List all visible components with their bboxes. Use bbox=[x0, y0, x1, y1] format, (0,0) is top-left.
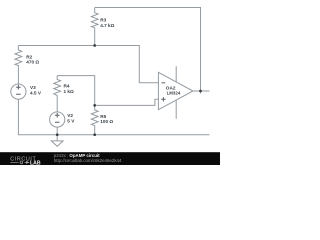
node: R3 bottom junction bbox=[93, 44, 96, 47]
voltage source V3 bbox=[11, 84, 42, 99]
voltage source V2 bbox=[50, 112, 76, 127]
resistor R2 bbox=[15, 46, 39, 85]
wire: noninverting input wire bbox=[95, 99, 159, 105]
svg-text:100 Ω: 100 Ω bbox=[100, 119, 113, 124]
ground bbox=[51, 135, 63, 147]
svg-text:http://circuitlab.com/c6k2e46e: http://circuitlab.com/c6k2e46e2k44 bbox=[54, 158, 122, 163]
wire: R4 top to noninverting node bbox=[57, 76, 94, 106]
op-amp OA2 LM324 bbox=[158, 66, 193, 118]
wire: mid wire to inverting input bbox=[18, 46, 158, 83]
wire: V2 bottom lead bbox=[56, 127, 58, 135]
watermark bar bbox=[0, 152, 220, 165]
wire: bottom rail from V3 to right stub bbox=[18, 99, 209, 135]
svg-text:LM324: LM324 bbox=[167, 90, 181, 95]
svg-text:V3: V3 bbox=[30, 85, 36, 90]
CircuitLab logo bbox=[10, 156, 41, 166]
node: output junction bbox=[199, 90, 202, 93]
svg-text:R4: R4 bbox=[64, 84, 70, 89]
svg-text:4.7 kΩ: 4.7 kΩ bbox=[100, 23, 114, 28]
resistor R3 bbox=[91, 8, 114, 46]
node: R5 bottom junction bbox=[93, 133, 96, 136]
svg-text:5 V: 5 V bbox=[67, 118, 75, 123]
resistor R5 bbox=[91, 105, 113, 134]
wire: top feedback wire from R3 top to output node bbox=[95, 8, 201, 92]
svg-text:V2: V2 bbox=[67, 113, 73, 118]
svg-text:R5: R5 bbox=[100, 114, 106, 119]
svg-text:470 Ω: 470 Ω bbox=[26, 60, 39, 65]
svg-text:LAB: LAB bbox=[30, 160, 41, 165]
node: V2 ground junction bbox=[56, 133, 59, 136]
wire: output wire bbox=[193, 91, 210, 93]
resistor R4 bbox=[54, 76, 74, 112]
node: noninverting junction bbox=[93, 104, 96, 107]
svg-text:4.5 V: 4.5 V bbox=[30, 90, 42, 95]
svg-text:1 kΩ: 1 kΩ bbox=[64, 89, 75, 94]
svg-text:R2: R2 bbox=[26, 54, 32, 59]
svg-text:R3: R3 bbox=[100, 18, 106, 23]
